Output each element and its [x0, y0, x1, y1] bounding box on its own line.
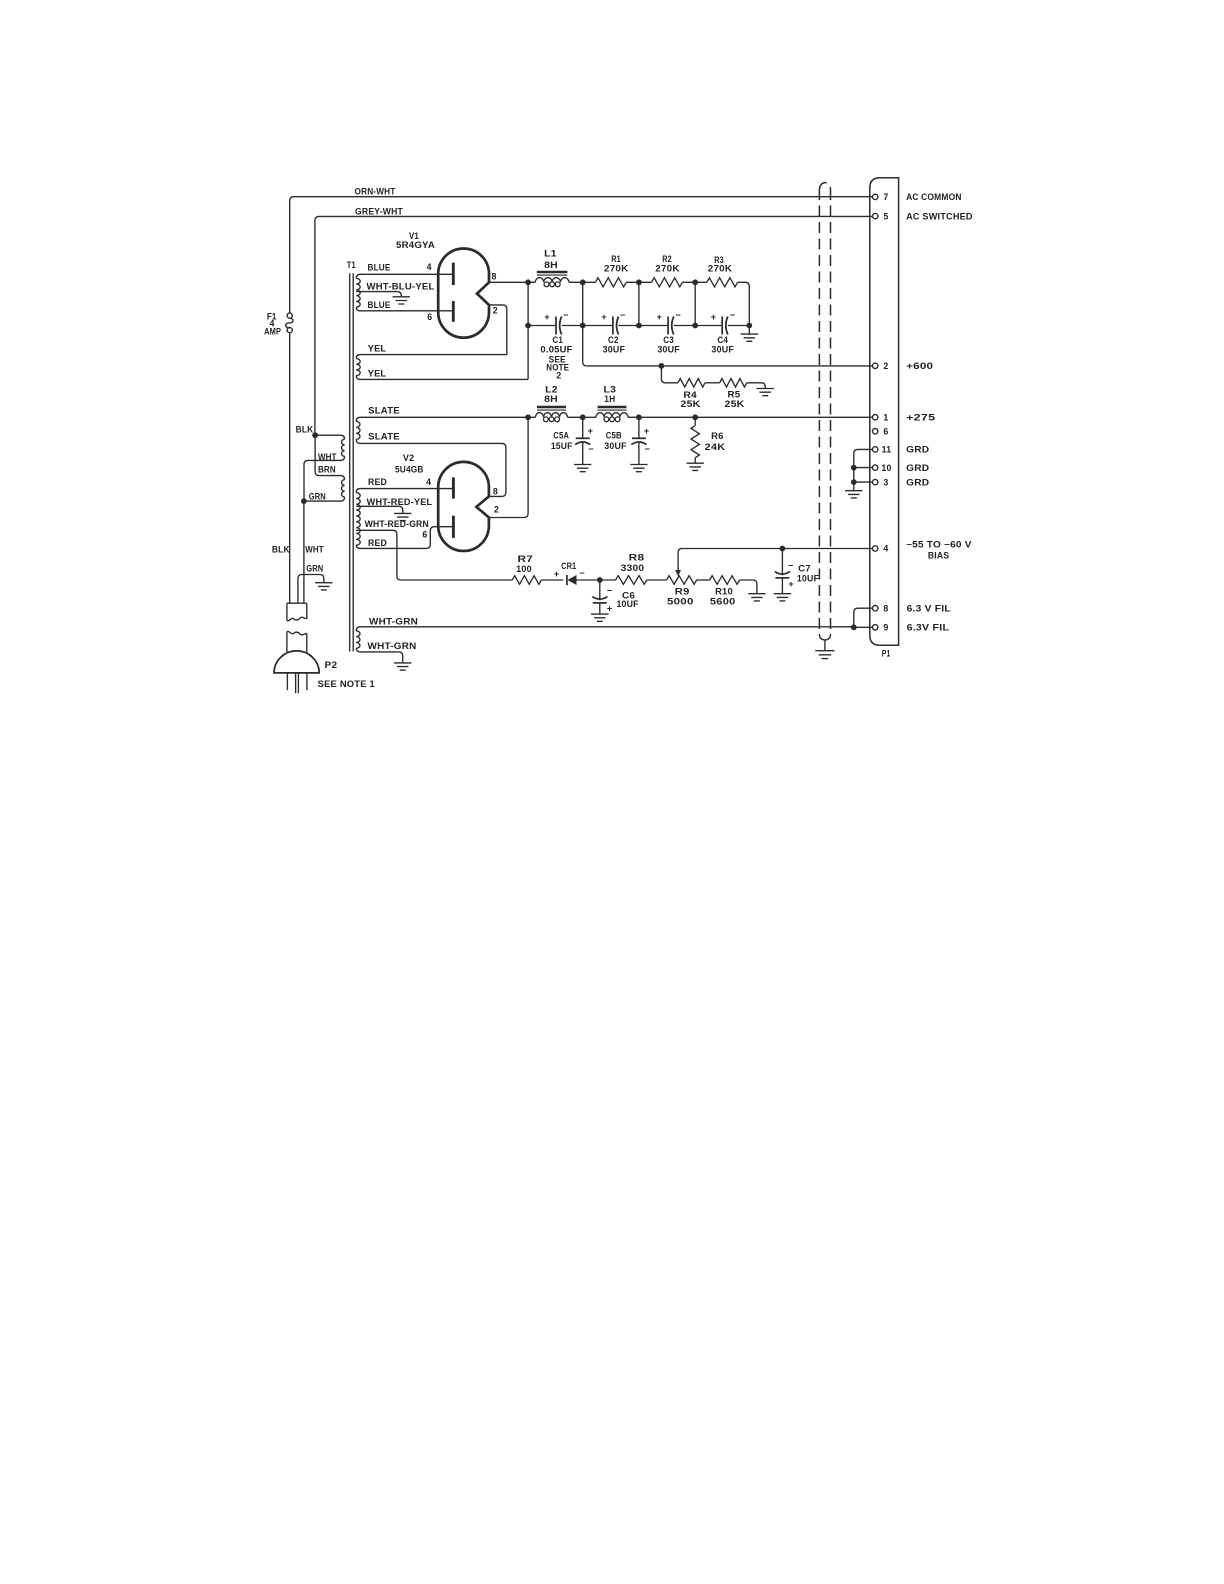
svg-text:25K: 25K — [681, 399, 702, 409]
svg-text:10: 10 — [881, 463, 891, 473]
svg-text:GRD: GRD — [906, 463, 929, 473]
junction node GRN/WHT (primary neutral) — [301, 498, 307, 504]
svg-text:C2: C2 — [608, 335, 619, 345]
node N1: pin8/L1/C1 junction with vertical to YEL — [527, 282, 529, 379]
junction C6 — [597, 577, 603, 583]
svg-text:L3: L3 — [604, 385, 617, 395]
V1 plate pin 6 — [452, 301, 455, 322]
svg-text:R2: R2 — [662, 254, 672, 264]
ground (bleeder R5) — [757, 389, 774, 396]
svg-text:GRN: GRN — [306, 563, 323, 573]
svg-text:−: − — [675, 310, 680, 320]
svg-text:4: 4 — [427, 262, 432, 272]
junction R6 takeoff — [692, 414, 698, 420]
ground (filter chain end) — [741, 334, 758, 341]
svg-text:GRN: GRN — [309, 491, 326, 501]
svg-text:WHT-GRN: WHT-GRN — [369, 616, 418, 626]
svg-text:8: 8 — [492, 272, 497, 282]
resistor R4 25K — [661, 366, 678, 383]
capacitor C7 10UF — [781, 549, 783, 594]
svg-text:9: 9 — [883, 623, 888, 633]
svg-text:−: − — [607, 586, 612, 596]
svg-text:+: + — [657, 312, 662, 322]
svg-text:8: 8 — [493, 486, 498, 496]
wire SLATE lower lead to V2 pin 8 — [356, 439, 506, 496]
svg-text:+: + — [711, 312, 716, 322]
svg-text:WHT: WHT — [318, 452, 337, 462]
P1 pin 4 — [873, 546, 878, 551]
junction node BLK (primary hot) — [312, 432, 318, 438]
svg-text:C3: C3 — [663, 335, 674, 345]
svg-text:10UF: 10UF — [797, 573, 820, 583]
svg-text:−: − — [620, 310, 625, 320]
svg-text:R9: R9 — [675, 587, 690, 597]
svg-text:1H: 1H — [604, 394, 615, 404]
svg-text:30UF: 30UF — [657, 344, 680, 354]
svg-text:AC SWITCHED: AC SWITCHED — [906, 211, 973, 221]
connector P1 body — [870, 178, 899, 646]
svg-text:4: 4 — [883, 544, 888, 554]
svg-text:C5A: C5A — [553, 431, 569, 441]
capacitor C2 30UF — [612, 317, 614, 335]
capacitor C5A 15UF — [582, 417, 584, 464]
svg-text:L1: L1 — [544, 249, 557, 259]
ground (P1 GRD pins) — [845, 491, 862, 498]
svg-text:+: + — [788, 579, 793, 589]
P1 pin 7 — [873, 194, 878, 199]
ground (C5A) — [574, 465, 591, 472]
svg-text:WHT: WHT — [305, 545, 324, 555]
svg-text:30UF: 30UF — [603, 344, 626, 354]
svg-text:R6: R6 — [711, 431, 724, 441]
svg-text:L2: L2 — [545, 385, 558, 395]
svg-text:R5: R5 — [728, 390, 741, 400]
svg-text:2: 2 — [493, 305, 498, 315]
svg-text:270K: 270K — [708, 264, 733, 274]
fuse F1 4 AMP — [287, 313, 292, 318]
svg-text:GRD: GRD — [906, 477, 929, 487]
svg-text:CR1: CR1 — [561, 561, 576, 571]
node N3 junction R1/R2/C2/C3 — [638, 282, 640, 325]
svg-text:R10: R10 — [715, 587, 733, 597]
svg-text:10UF: 10UF — [616, 599, 639, 609]
capacitor C1 0.05UF — [555, 317, 557, 335]
resistor R2 270K — [652, 278, 683, 287]
svg-text:5: 5 — [883, 211, 888, 221]
wire GREY-WHT to P1 pin 5 (AC SWITCHED) — [315, 216, 873, 435]
wire V1 pin 8 to L1 input node — [489, 281, 528, 283]
ground (6.3V winding return) — [394, 663, 411, 670]
plug P2 — [274, 651, 319, 673]
svg-text:8H: 8H — [544, 260, 558, 270]
svg-text:7: 7 — [883, 192, 888, 202]
junction L3/C5B — [636, 414, 642, 420]
svg-text:6: 6 — [427, 312, 432, 322]
wire 6.3V fil stub into pin 9 — [854, 626, 873, 628]
ground (V1 HV center tap) — [393, 297, 410, 304]
line cord lower section — [287, 631, 307, 652]
svg-text:30UF: 30UF — [711, 344, 734, 354]
resistor R6 24K — [694, 417, 696, 425]
choke L2 8H — [536, 413, 568, 418]
svg-text:100: 100 — [516, 564, 532, 574]
svg-text:R1: R1 — [611, 254, 621, 264]
potentiometer R9 5000 — [667, 576, 697, 585]
svg-text:WHT-RED-GRN: WHT-RED-GRN — [365, 519, 429, 529]
svg-text:−: − — [645, 444, 650, 454]
svg-text:5R4GYA: 5R4GYA — [396, 240, 435, 250]
ground (C5B) — [630, 465, 647, 472]
svg-text:5000: 5000 — [667, 597, 694, 607]
svg-text:WHT-GRN: WHT-GRN — [368, 641, 417, 651]
svg-text:−: − — [588, 444, 593, 454]
svg-text:−55 TO −60 V: −55 TO −60 V — [906, 540, 972, 550]
svg-text:C4: C4 — [717, 335, 728, 345]
svg-text:3: 3 — [883, 477, 888, 487]
svg-text:5600: 5600 — [710, 597, 736, 607]
diode CR1 — [566, 575, 568, 585]
P1 pin 11 — [873, 447, 878, 452]
T1 center tap WHT-BLU-YEL to ground — [356, 292, 401, 297]
P1 pin 9 — [873, 625, 878, 630]
svg-text:6.3V FIL: 6.3V FIL — [907, 622, 950, 632]
wire WHT down to line cord — [303, 501, 305, 603]
svg-text:270K: 270K — [604, 264, 629, 274]
resistor R5 25K — [705, 382, 720, 384]
svg-text:RED: RED — [368, 477, 387, 487]
svg-text:3300: 3300 — [621, 563, 645, 573]
svg-text:C7: C7 — [798, 563, 811, 573]
svg-text:2: 2 — [494, 505, 499, 515]
svg-text:6: 6 — [422, 530, 427, 540]
node N5 / ground after C4-R3 — [746, 323, 752, 329]
svg-text:−: − — [563, 310, 568, 320]
svg-text:GRD: GRD — [906, 445, 929, 455]
svg-text:R8: R8 — [629, 553, 645, 563]
svg-text:−: − — [579, 568, 584, 578]
svg-text:−: − — [730, 310, 735, 320]
T1 primary winding 2 BRN-GRN — [341, 476, 345, 480]
capacitor C3 30UF — [667, 317, 669, 335]
V1 plate pin 4 — [452, 263, 455, 286]
svg-text:SLATE: SLATE — [368, 405, 400, 415]
svg-text:RED: RED — [368, 538, 387, 548]
svg-text:WHT-BLU-YEL: WHT-BLU-YEL — [367, 281, 435, 291]
tube V2 5U4GB envelope — [438, 462, 489, 551]
plug prongs — [287, 673, 307, 693]
wire V1 pin 2 to YEL winding — [489, 305, 507, 355]
svg-text:SLATE: SLATE — [368, 432, 400, 442]
wire BLK from fuse down to line cord — [289, 333, 291, 603]
junction L2/L3/C5A — [580, 414, 586, 420]
R9 wiper arm to bias line — [678, 549, 873, 571]
ground (GRN line) — [315, 583, 332, 590]
P1 pin 2 — [873, 363, 878, 368]
junction C7 on bias line — [780, 546, 786, 552]
svg-text:WHT-RED-YEL: WHT-RED-YEL — [367, 497, 433, 507]
wire RED lower lead to V2 pin 6 — [356, 527, 453, 549]
svg-text:SEE NOTE 1: SEE NOTE 1 — [318, 679, 375, 689]
wire GRN safety ground — [298, 575, 324, 603]
svg-text:AMP: AMP — [264, 327, 281, 337]
svg-text:BIAS: BIAS — [928, 550, 949, 560]
T1 primary winding 1 BLK-WHT — [315, 435, 345, 439]
svg-text:+: + — [544, 312, 549, 322]
svg-text:P2: P2 — [325, 660, 338, 670]
resistor R10 5600 — [697, 579, 710, 581]
node N4 junction R2/R3/C3/C4 — [694, 282, 696, 325]
P1 pin 6 — [873, 429, 878, 434]
capacitor C5B 30UF — [638, 417, 640, 464]
svg-text:BLK: BLK — [296, 424, 314, 434]
svg-text:C5B: C5B — [606, 431, 622, 441]
wire ORN-WHT from plug/fuse to P1 pin 7 (AC COMMON) — [290, 197, 873, 313]
svg-text:+: + — [601, 312, 606, 322]
capacitor C4 30UF — [721, 317, 723, 335]
wire V2 pin 2 up to +275 node — [489, 417, 528, 517]
shield dashed line — [818, 189, 820, 634]
wire P1 pins 8-9 filament strap — [854, 608, 873, 627]
svg-text:YEL: YEL — [368, 368, 387, 378]
svg-text:8: 8 — [883, 603, 888, 613]
svg-text:1: 1 — [883, 412, 888, 422]
svg-text:15UF: 15UF — [551, 441, 573, 451]
transformer T1 core — [350, 273, 354, 651]
svg-text:ORN-WHT: ORN-WHT — [355, 187, 396, 197]
svg-text:+275: +275 — [906, 413, 935, 423]
resistor R8 3300 — [600, 579, 616, 581]
svg-text:R7: R7 — [518, 554, 534, 564]
resistor R3 270K — [707, 278, 738, 287]
resistor R7 100 — [512, 576, 541, 585]
resistor R1 270K — [595, 278, 626, 287]
svg-text:6.3 V FIL: 6.3 V FIL — [907, 603, 952, 613]
svg-text:V2: V2 — [403, 453, 415, 463]
svg-text:−: − — [788, 560, 793, 570]
svg-text:2: 2 — [556, 371, 561, 381]
T1 tap WHT-RED-YEL to ground — [356, 506, 403, 513]
svg-text:270K: 270K — [655, 264, 680, 274]
svg-text:BLUE: BLUE — [368, 300, 391, 310]
P1 pin 10 — [873, 465, 878, 470]
svg-text:+: + — [644, 426, 649, 436]
wire P1 pins 11-10-3 ground strap — [854, 449, 873, 490]
svg-text:5U4GB: 5U4GB — [395, 465, 424, 475]
svg-text:+: + — [554, 569, 559, 579]
svg-text:25K: 25K — [725, 399, 746, 409]
svg-text:30UF: 30UF — [604, 441, 627, 451]
wire +275 line: SLATE/L2/L3 row to P1 pin 1 — [528, 416, 873, 418]
P1 pin 5 — [873, 213, 878, 218]
V2 plate pin 4 — [452, 477, 455, 498]
P1 pin 1 — [873, 415, 878, 420]
ground (shield) — [815, 651, 834, 659]
P1 pin 8 — [873, 606, 878, 611]
svg-text:6: 6 — [883, 426, 888, 436]
svg-text:T1: T1 — [347, 260, 356, 270]
svg-text:C1: C1 — [552, 335, 563, 345]
svg-text:2: 2 — [883, 361, 888, 371]
svg-text:P1: P1 — [882, 649, 891, 659]
ground (C7) — [774, 594, 791, 601]
tube V1 5R4GYA envelope — [438, 249, 489, 338]
V2 plate pin 6 — [452, 516, 455, 538]
wire +600 line to P1 pin 2 — [587, 365, 873, 367]
svg-text:BRN: BRN — [318, 465, 336, 475]
wire T1 tap WHT-RED-GRN to bias rectifier R7 — [356, 530, 512, 580]
line cord upper section — [287, 603, 307, 621]
junction bleeder takeoff — [659, 363, 665, 369]
svg-text:4: 4 — [426, 477, 431, 487]
svg-text:BLUE: BLUE — [368, 263, 391, 273]
node N2 junction L1/R1/C1/C2 and +600 takeoff — [583, 282, 587, 366]
svg-text:11: 11 — [882, 445, 892, 455]
T1 primary parallel strap BLK to BRN — [315, 435, 341, 475]
svg-text:BLK: BLK — [272, 545, 290, 555]
ground (C6) — [591, 614, 608, 621]
choke L3 1H — [583, 416, 596, 418]
svg-text:0.05UF: 0.05UF — [540, 344, 573, 354]
capacitor C6 10UF — [599, 580, 601, 614]
svg-text:YEL: YEL — [368, 344, 387, 354]
P1 pin 3 — [873, 479, 878, 484]
ground (R10) — [748, 594, 765, 601]
svg-text:+: + — [607, 604, 612, 614]
svg-text:24K: 24K — [705, 442, 726, 452]
choke L1 8H — [528, 281, 583, 283]
svg-text:+: + — [588, 426, 593, 436]
ground (V2 HV center tap) — [394, 513, 411, 520]
svg-text:GREY-WHT: GREY-WHT — [355, 206, 403, 216]
svg-text:AC COMMON: AC COMMON — [906, 192, 962, 202]
svg-text:+600: +600 — [906, 361, 933, 371]
svg-text:8H: 8H — [544, 394, 558, 404]
ground (R6) — [687, 463, 704, 470]
